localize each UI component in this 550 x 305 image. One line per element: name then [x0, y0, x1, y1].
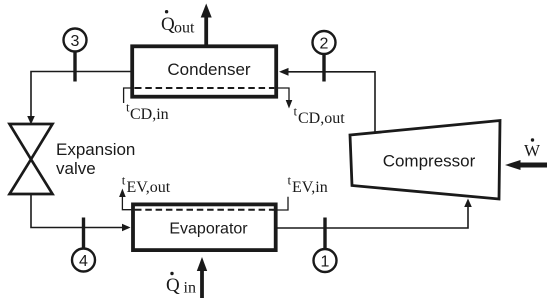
- svg-text:t: t: [294, 104, 298, 119]
- node 3: [64, 29, 87, 82]
- W arrow: [505, 160, 547, 170]
- svg-text:Q: Q: [166, 275, 180, 296]
- evaporator: [133, 204, 276, 250]
- expansion valve: [10, 124, 53, 194]
- condenser: [132, 46, 276, 96]
- svg-text:EV,out: EV,out: [127, 179, 171, 196]
- svg-text:Expansion: Expansion: [56, 140, 135, 159]
- svg-text:CD,in: CD,in: [130, 106, 169, 123]
- label t_CD,in: [126, 100, 169, 124]
- svg-text:t: t: [288, 173, 292, 188]
- svg-text:W: W: [524, 141, 541, 160]
- svg-text:Compressor: Compressor: [383, 151, 476, 170]
- probe t_EV,in: [272, 197, 288, 210]
- svg-text:Evaporator: Evaporator: [169, 220, 248, 237]
- svg-text:2: 2: [320, 35, 329, 52]
- svg-text:out: out: [174, 20, 195, 37]
- label Q_in: [166, 272, 196, 297]
- label t_CD,out: [294, 104, 346, 128]
- svg-text:CD,out: CD,out: [298, 110, 345, 127]
- svg-text:Condenser: Condenser: [167, 60, 251, 79]
- wire from expansion valve to evaporator inlet (node 4 segment): [31, 194, 131, 232]
- probe t_EV,out: [119, 189, 136, 210]
- label Expansion valve: [56, 140, 135, 178]
- probe t_CD,in: [124, 88, 136, 103]
- label t_EV,out: [122, 173, 171, 197]
- compressor: [350, 121, 500, 200]
- wire from condenser outlet to expansion valve (node 3 segment): [27, 72, 131, 125]
- svg-text:1: 1: [321, 253, 330, 270]
- label Q_out: [161, 10, 195, 37]
- node 1: [314, 218, 337, 273]
- wire from evaporator outlet to compressor suction (node 1 segment): [278, 199, 472, 229]
- Q_out arrow: [201, 4, 212, 47]
- svg-text:4: 4: [79, 253, 88, 270]
- wire from compressor discharge to condenser inlet (node 2 segment): [279, 68, 375, 132]
- node 4: [72, 218, 95, 272]
- probe t_CD,out: [272, 88, 292, 109]
- svg-text:3: 3: [71, 33, 80, 50]
- svg-text:EV,in: EV,in: [292, 179, 328, 196]
- label t_EV,in: [288, 173, 328, 197]
- svg-text:valve: valve: [56, 159, 96, 178]
- svg-text:in: in: [184, 280, 196, 297]
- svg-text:Q: Q: [161, 14, 175, 35]
- label W: [524, 138, 541, 160]
- node 2: [313, 31, 336, 82]
- Q_in arrow: [197, 257, 207, 298]
- svg-text:t: t: [122, 173, 126, 188]
